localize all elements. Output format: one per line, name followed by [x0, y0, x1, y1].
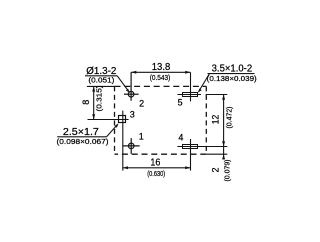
pin 2 round hole	[124, 72, 139, 101]
label 3.5x1.0-2 with leader to pin 5	[199, 74, 254, 91]
label 2.5x1.7 with leader to pin 3	[57, 125, 117, 137]
svg-text:(0.098×0.067): (0.098×0.067)	[57, 137, 110, 146]
pin 4 slot	[177, 139, 227, 171]
svg-text:3: 3	[130, 109, 135, 119]
relay outline dashed rectangle: left edge	[114, 86, 116, 154]
svg-text:(0.630): (0.630)	[147, 169, 165, 178]
svg-text:8: 8	[81, 100, 91, 105]
svg-text:(0.051): (0.051)	[88, 75, 115, 84]
svg-text:4: 4	[178, 133, 183, 143]
svg-text:2: 2	[139, 99, 144, 109]
dimension 12 and 2 right	[206, 95, 228, 160]
svg-text:(0.543): (0.543)	[150, 73, 171, 82]
label dia 1.3-2 with leader to pin 2	[85, 76, 128, 91]
svg-text:(0.472): (0.472)	[225, 106, 234, 128]
svg-text:1: 1	[139, 132, 144, 142]
dimension 13.8 top	[131, 71, 190, 73]
svg-text:(0.138×0.039): (0.138×0.039)	[207, 74, 258, 83]
svg-text:5: 5	[178, 98, 183, 108]
svg-text:2: 2	[211, 167, 221, 172]
svg-text:(0.079): (0.079)	[223, 159, 232, 181]
svg-text:16: 16	[150, 157, 160, 168]
dimension 16 bottom	[123, 167, 191, 169]
svg-text:(0.315): (0.315)	[94, 85, 103, 112]
pin 5 slot	[177, 72, 201, 101]
svg-text:12: 12	[210, 115, 220, 125]
relay outline dashed rectangle: right edge	[205, 86, 207, 154]
dimension 8 left	[87, 86, 115, 119]
svg-text:13.8: 13.8	[152, 62, 171, 73]
relay outline dashed rectangle: bottom edge	[115, 153, 207, 155]
pin 1 round hole	[123, 138, 140, 154]
pin 3 slot	[88, 111, 129, 171]
relay outline dashed rectangle: top edge	[115, 85, 207, 87]
